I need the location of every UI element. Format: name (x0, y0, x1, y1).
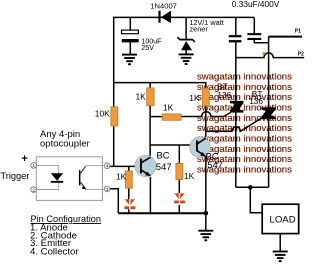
ground G1 under 100uF (122, 55, 137, 65)
red LED1 indicator (125, 199, 136, 210)
svg-text:1K: 1K (116, 172, 127, 182)
svg-text:0.33uF/400V: 0.33uF/400V (232, 0, 280, 9)
pin circle 1 (31, 163, 37, 169)
svg-text:25V: 25V (141, 44, 154, 52)
opto LED (51, 173, 63, 183)
svg-text:1K: 1K (136, 92, 147, 102)
wire Q2 collector to right triac gate with hop (206, 118, 262, 132)
wire cap C3 stub (253, 17, 255, 33)
transistor Q2 BC547 (190, 137, 211, 158)
wire opto pin3 to ground rail (110, 189, 118, 213)
watermark swagatam innovations rows (197, 72, 292, 176)
wire left supply rail (113, 17, 115, 166)
ground G4 under LOAD (273, 252, 288, 262)
wire junction to LOAD (250, 187, 262, 213)
svg-text:1K: 1K (163, 103, 174, 113)
svg-text:547: 547 (156, 161, 172, 172)
wire 100uF to ground (129, 41, 131, 54)
svg-text:2: 2 (32, 187, 35, 192)
wire R2 bottom to Q1 collector (149, 106, 151, 156)
wire top rail (113, 16, 254, 18)
wire R3 to left triac gate with hop (181, 112, 231, 117)
svg-text:1N4007: 1N4007 (150, 2, 177, 11)
wire base node to R6 (178, 145, 180, 163)
svg-text:+: + (21, 153, 27, 165)
wire LOAD to ground (279, 234, 281, 252)
node orange speck on P2 hop (262, 52, 265, 55)
resistor R4 1K (202, 88, 209, 106)
ground G3 under Q2 emitter (198, 231, 213, 241)
svg-text:3: 3 (106, 187, 109, 192)
svg-text:P1: P1 (295, 29, 301, 35)
wire Q2 emitter to ground (205, 154, 207, 230)
resistor R6 1K (176, 163, 183, 179)
wire right triac MT1 down (268, 119, 270, 187)
wire LED2 to ground rail (178, 205, 180, 213)
svg-text:136: 136 (217, 90, 231, 100)
wire R5 to red LED1 (128, 188, 130, 199)
transistor Q1 BC547 (135, 155, 156, 176)
wire R6 to red LED2 (178, 179, 180, 193)
wire 100uF stub (129, 17, 131, 30)
svg-text:1K: 1K (184, 171, 195, 181)
wire R5 top stub (128, 167, 130, 171)
wire R4 to Q2 collector (205, 104, 207, 137)
wire 1K R2 top stub (149, 83, 151, 89)
wire C2 through P2 to left triac (235, 42, 237, 101)
wire bottom ground rail (118, 212, 206, 214)
wire LED1 to ground rail (128, 209, 130, 213)
opto LED internal wires (36, 165, 58, 189)
wire Q2 base line (150, 144, 197, 146)
svg-text:BC: BC (157, 150, 170, 161)
svg-text:547: 547 (207, 159, 223, 170)
svg-text:10K: 10K (95, 109, 110, 119)
svg-text:optocoupler: optocoupler (40, 139, 90, 150)
svg-text:4. Collector: 4. Collector (30, 246, 79, 257)
svg-text:LOAD: LOAD (270, 214, 296, 225)
pin circle 2 (31, 187, 37, 193)
svg-text:P2: P2 (298, 51, 304, 57)
wire 12V rail to 1K R4 (114, 83, 206, 89)
resistor R2 1K (147, 88, 154, 106)
capacitor C2 0.33uF (229, 35, 242, 42)
svg-text:zener: zener (190, 24, 209, 33)
diode 1N4007 (158, 11, 171, 23)
optocoupler box (36, 157, 102, 201)
pin circle 4 (104, 163, 110, 169)
svg-text:136: 136 (249, 96, 263, 106)
triac T1 BT136 (230, 101, 243, 113)
svg-text:4: 4 (106, 164, 109, 169)
capacitor 100uF electrolytic (122, 30, 139, 42)
wire P1 node down to right triac MT2 (268, 37, 270, 108)
triac T2 BT136 (261, 107, 275, 119)
wire left triac MT1 down (235, 112, 237, 187)
wire junction to R3 (150, 116, 162, 118)
ground G2 under zener (179, 54, 194, 64)
pin circle 3 (104, 186, 110, 192)
node junction dot triac join (248, 185, 253, 190)
resistor R3 1K horizontal (162, 114, 181, 120)
svg-text:1: 1 (32, 163, 35, 168)
wire P1 terminal line (269, 36, 302, 38)
svg-text:Trigger: Trigger (1, 171, 30, 181)
wire zener stub (185, 17, 187, 39)
capacitor C3 0.33uF (247, 33, 261, 40)
LOAD box (262, 204, 299, 233)
resistor R5 1K (125, 171, 132, 188)
wire zener to ground (185, 50, 187, 54)
wire opto pin4 to Q1 base (110, 165, 141, 167)
wire Q1 emitter down (149, 177, 151, 213)
wire C3 to P1 node (254, 40, 268, 43)
wire P2 terminal line with hop (236, 53, 304, 58)
resistor R1 10K (111, 107, 118, 126)
wire triac outputs join (236, 186, 269, 188)
zener 12V (177, 37, 195, 50)
wire cap C2 stub (235, 17, 237, 35)
opto phototransistor (79, 166, 105, 190)
node junction dot ground rail (204, 211, 209, 216)
red LED2 indicator (174, 193, 185, 204)
svg-text:1K: 1K (189, 93, 200, 103)
